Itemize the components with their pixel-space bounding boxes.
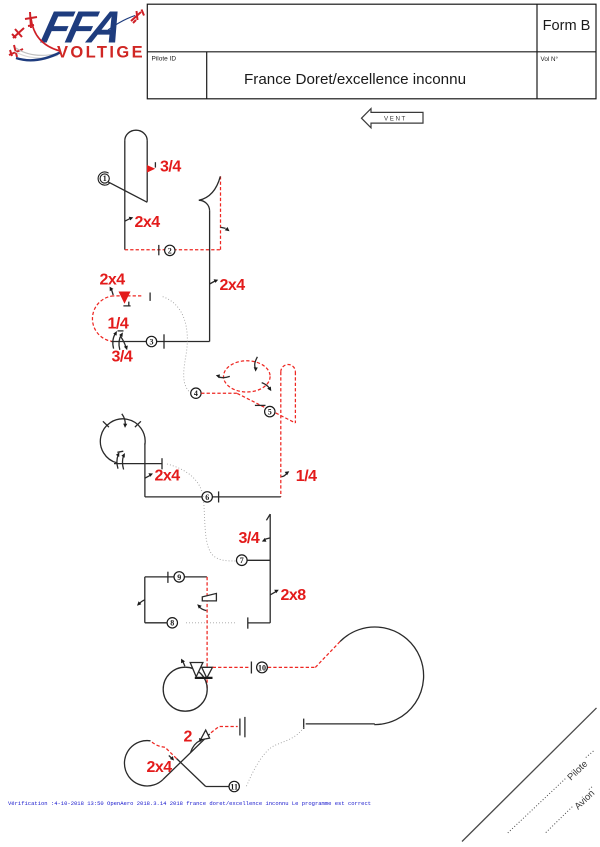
- fig6 inner arrows: [117, 455, 118, 469]
- fig5 roll arrow: [281, 474, 286, 477]
- fig2 down-line: [209, 211, 211, 342]
- fig2 roll arrow lower: [210, 281, 215, 284]
- svg-text:France Doret/excellence inconn: France Doret/excellence inconnu: [244, 71, 466, 88]
- fig10 exit tick: [303, 719, 305, 729]
- wire: dotted connector fig3 to fig4: [163, 297, 191, 393]
- fig10 tick: [250, 662, 252, 674]
- fig9 tailslide flag: [202, 593, 216, 601]
- svg-text:Form B: Form B: [543, 18, 591, 34]
- blue swoosh: [16, 53, 60, 61]
- fig10 red line left: [213, 666, 249, 668]
- fig11 red diagonal on circle: [151, 741, 177, 759]
- red swoosh: [31, 18, 60, 51]
- fig11 circle: [124, 741, 163, 786]
- node 1 start circle: [98, 172, 109, 185]
- fig6 inner tick: [117, 451, 123, 452]
- figure 8: box: [137, 572, 207, 623]
- node 9 circle: [174, 572, 184, 582]
- fig1 roll arrow: [125, 218, 131, 221]
- svg-text:8: 8: [170, 619, 174, 628]
- node 6 circle: [202, 492, 212, 502]
- svg-text:3: 3: [150, 337, 154, 346]
- header labels: [152, 18, 591, 88]
- svg-text:2x4: 2x4: [100, 272, 126, 289]
- fig7 up line: [269, 514, 271, 623]
- node 10 circle: [257, 662, 268, 673]
- fig8 arrow: [139, 600, 145, 604]
- node 5 circle: [265, 406, 275, 416]
- figure 1: hairpin with spin: [108, 130, 181, 249]
- svg-text:2x4: 2x4: [155, 468, 181, 485]
- fig2 separator tick: [158, 245, 160, 255]
- fig2 red up-line: [220, 176, 222, 249]
- fig4 separator tick: [255, 404, 266, 406]
- figure 11: loop with crossed lines: [124, 717, 244, 787]
- node 8 circle: [167, 618, 177, 628]
- node 2 circle: [165, 245, 175, 255]
- fig11 triangle: [200, 730, 209, 740]
- fig3 quarter tick: [118, 330, 124, 332]
- fig3 base line: [111, 341, 210, 343]
- fig1 top half-loop: [125, 130, 147, 140]
- fig10 small circle: [163, 667, 207, 711]
- fig6 loop circle: [100, 419, 145, 463]
- fig6 right X tick: [135, 421, 141, 427]
- header table: [147, 4, 596, 99]
- fig3 end tick: [149, 293, 151, 301]
- fig4 red entry line: [201, 392, 237, 394]
- red plane lower left: [9, 45, 23, 57]
- fig7 top flick: [266, 514, 270, 520]
- fig1 right down-line: [146, 141, 148, 202]
- fig10 triangle 2: [202, 667, 213, 678]
- svg-text:3/4: 3/4: [160, 159, 181, 176]
- fig11 curved arrow: [191, 740, 201, 752]
- red plane mid left: [12, 28, 24, 38]
- svg-text:2x8: 2x8: [281, 587, 307, 604]
- fig1 spin tick: [154, 162, 156, 167]
- svg-text:Vérification :4-10-2018 13:50: Vérification :4-10-2018 13:50 OpenAero 2…: [8, 800, 371, 807]
- svg-text:9: 9: [177, 573, 181, 582]
- fig6 mid line: [114, 463, 162, 465]
- fig6 base line: [145, 496, 281, 498]
- svg-text:VOLTIGE: VOLTIGE: [57, 44, 145, 62]
- fig10 big loop: [340, 627, 424, 725]
- fig11 2x4 arrowhead: [169, 756, 172, 759]
- node 3 circle: [146, 334, 164, 348]
- fig10 triangle 1: [190, 663, 203, 677]
- fig5 left down line: [280, 372, 282, 497]
- svg-text:2: 2: [168, 246, 172, 255]
- fig6 top arrow: [122, 414, 125, 425]
- svg-text:1/4: 1/4: [108, 316, 129, 333]
- fig9 red down line: [206, 577, 208, 689]
- FFA Voltige logo: [9, 2, 145, 61]
- node 4 circle: [191, 388, 201, 398]
- fig8 bottom line: [145, 622, 168, 624]
- fig3 arrow up-left: [112, 290, 114, 296]
- fig3 red top line: [114, 295, 142, 297]
- wire: dotted connector fig10 to fig11: [246, 728, 304, 788]
- figure 7: vertical with rolls: [239, 514, 307, 629]
- svg-text:Vol N°: Vol N°: [541, 55, 559, 63]
- fig7 arrow 3/4: [265, 538, 270, 539]
- fig10 red line right: [268, 666, 315, 668]
- blue trail line to plane: [108, 16, 135, 31]
- figure 10: circle, line and big loop: [163, 627, 423, 729]
- fig4 right arrow: [262, 383, 270, 389]
- figure 9: red descent with tailslide: [197, 577, 216, 689]
- svg-text:10: 10: [258, 663, 266, 672]
- svg-text:3/4: 3/4: [112, 349, 133, 366]
- fig2 top curve: [199, 176, 221, 211]
- fig8 top tick: [167, 572, 169, 583]
- fig10 red diagonal: [315, 642, 340, 668]
- fig10 arrow: [183, 662, 185, 667]
- svg-text:7: 7: [240, 556, 244, 565]
- red plane top right: [131, 10, 144, 24]
- svg-text:2: 2: [184, 729, 193, 746]
- svg-text:VENT: VENT: [384, 116, 407, 123]
- fig8 left line: [144, 577, 146, 623]
- fig7 arrow 2x8: [270, 592, 275, 595]
- figure 3: half loop down with spin triangle: [92, 272, 209, 366]
- fig11 diagonal down-right: [177, 759, 206, 787]
- fig8 top line: [145, 576, 207, 578]
- fig1 spin triangle: [147, 165, 155, 173]
- svg-text:1: 1: [103, 174, 107, 183]
- fig1 left up-line: [124, 141, 126, 250]
- fig6 mid tick: [161, 458, 163, 469]
- figure 4: rolling circle: [201, 357, 295, 423]
- wire: dotted connector fig6 to fig7: [167, 464, 236, 561]
- silver swooshes: [16, 48, 58, 55]
- fig3 spin triangle: [119, 292, 131, 304]
- fig3 spin hook: [123, 302, 130, 306]
- svg-text:5: 5: [268, 408, 272, 417]
- wind arrow VENT: [362, 109, 424, 128]
- fig6 base tick: [218, 491, 220, 502]
- svg-text:Pilote ID: Pilote ID: [152, 56, 177, 63]
- fig4 top arrow: [255, 357, 258, 369]
- fig6 roll arrow: [145, 475, 150, 478]
- fig4 left arrow: [219, 376, 230, 377]
- fig6 left X tick: [103, 421, 109, 427]
- fig11 diagonal up-right: [163, 734, 210, 779]
- fig9 arrow: [199, 606, 206, 610]
- fig10 exit line: [306, 723, 375, 725]
- fig3 roll arrows: [113, 333, 116, 348]
- svg-text:1/4: 1/4: [296, 468, 317, 485]
- fig7 bottom tick: [247, 617, 249, 628]
- svg-text:3/4: 3/4: [239, 530, 260, 547]
- node 7 circle: [237, 555, 248, 566]
- fig7 bottom line: [248, 622, 270, 624]
- signature diagonal solid: [462, 708, 597, 842]
- figure 2: push up and over: [199, 176, 245, 341]
- fig4 red diagonal: [237, 393, 295, 423]
- avion dotted line: [546, 786, 593, 833]
- fig11 end bars: [239, 719, 241, 736]
- svg-text:11: 11: [230, 782, 238, 791]
- svg-text:2x4: 2x4: [220, 277, 246, 294]
- wire: inverted line fig1-fig2: [125, 249, 221, 251]
- figure 5: red hairpin: [281, 365, 317, 497]
- wire: dotted connector fig7 to fig8: [185, 622, 235, 624]
- fig10 bar: [195, 677, 213, 679]
- fig1 entry diagonal: [108, 182, 147, 202]
- svg-text:2x4: 2x4: [135, 214, 161, 231]
- fig7 entry line: [247, 559, 270, 561]
- fig11 red exit diagonal: [211, 727, 238, 733]
- svg-text:2x4: 2x4: [147, 759, 173, 776]
- svg-text:4: 4: [194, 389, 198, 398]
- fig6 down line: [144, 444, 146, 497]
- fig5 hairpin arc: [281, 365, 296, 372]
- fig11 base line: [206, 786, 230, 788]
- svg-text:6: 6: [205, 493, 209, 502]
- fig4 red ellipse: [224, 361, 271, 392]
- figure 6: P loop: [100, 414, 280, 503]
- pilote dotted line: [508, 751, 594, 833]
- fig3 red half circle: [92, 296, 113, 341]
- node 11 circle: [229, 781, 239, 791]
- fig5 right line: [294, 372, 296, 423]
- red plane upper left: [25, 12, 37, 28]
- fig2 roll arrow: [221, 227, 226, 228]
